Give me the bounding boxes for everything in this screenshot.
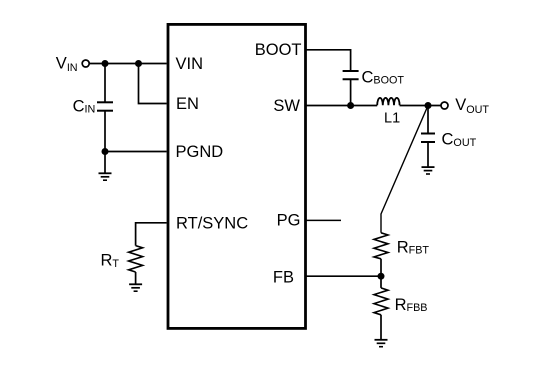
wire RFBT to FB node xyxy=(380,259,382,276)
svg-text:COUT: COUT xyxy=(442,130,477,149)
junction SW/CBOOT xyxy=(347,102,354,109)
wire PG stub xyxy=(305,219,341,221)
svg-text:RFBB: RFBB xyxy=(395,296,428,314)
junction VIN/CIN xyxy=(102,60,109,67)
ground at COUT xyxy=(422,167,435,174)
resistor RT xyxy=(129,246,143,272)
wire VOUT to RFBT (diagonal) xyxy=(381,106,428,233)
inductor L1 xyxy=(377,98,399,105)
capacitor CIN xyxy=(97,64,113,152)
wire BOOT to CBOOT xyxy=(305,50,350,71)
wire VIN to IC xyxy=(89,63,166,65)
resistor RFBT xyxy=(374,233,388,259)
terminal VIN circle xyxy=(82,60,89,67)
ground at RFBB xyxy=(375,340,388,347)
capacitor CBOOT xyxy=(343,71,359,106)
IC U1 body xyxy=(168,24,306,328)
wire L1 to VOUT xyxy=(400,105,441,107)
junction VOUT node xyxy=(425,102,432,109)
ground at RT xyxy=(129,272,142,291)
junction VIN/EN xyxy=(135,60,142,67)
svg-text:CBOOT: CBOOT xyxy=(362,68,405,86)
svg-text:EN: EN xyxy=(176,95,199,113)
svg-text:BOOT: BOOT xyxy=(255,41,302,59)
svg-text:VIN: VIN xyxy=(176,55,204,73)
wire SW xyxy=(306,105,377,107)
terminal VOUT circle xyxy=(441,102,448,109)
svg-text:RFBT: RFBT xyxy=(397,238,430,256)
svg-text:RT: RT xyxy=(101,252,120,271)
junction FB node xyxy=(378,273,385,280)
resistor RFBB xyxy=(374,276,388,340)
svg-text:PGND: PGND xyxy=(176,143,224,161)
capacitor COUT xyxy=(421,106,435,168)
wire RT/SYNC xyxy=(136,223,167,246)
svg-text:SW: SW xyxy=(273,97,300,115)
svg-text:L1: L1 xyxy=(384,111,400,127)
svg-text:PG: PG xyxy=(277,212,301,230)
svg-text:FB: FB xyxy=(273,269,294,287)
svg-text:RT/SYNC: RT/SYNC xyxy=(176,214,248,232)
wire FB xyxy=(305,275,381,277)
svg-text:CIN: CIN xyxy=(73,97,96,115)
junction CIN/PGND xyxy=(102,148,109,155)
svg-text:VIN: VIN xyxy=(56,55,78,74)
ground at CIN xyxy=(99,152,112,181)
svg-text:VOUT: VOUT xyxy=(455,96,489,116)
wire PGND xyxy=(105,151,167,153)
wire EN branch xyxy=(139,64,167,104)
